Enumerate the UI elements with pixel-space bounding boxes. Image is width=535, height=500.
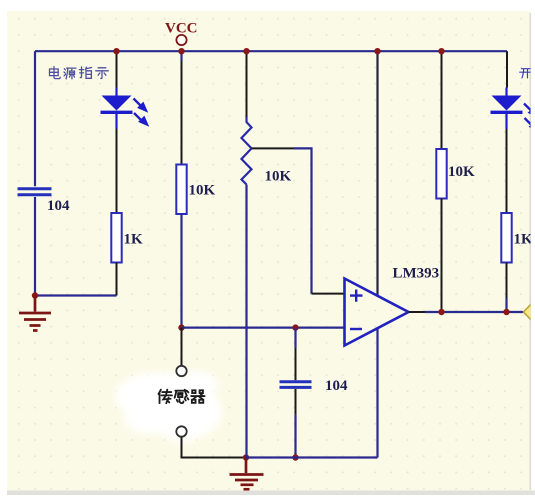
svg-text:1K: 1K bbox=[124, 232, 144, 248]
wire: middle column from rail to R2 bbox=[180, 51, 182, 61]
sensor label 传感器 bbox=[159, 390, 205, 403]
junction at rail (V+ pin) bbox=[374, 48, 380, 54]
wire: D1 cathode to R1 bbox=[116, 129, 118, 213]
LED D1 anode stub bbox=[115, 88, 117, 96]
capacitor C1 plates bbox=[18, 189, 52, 195]
wire: LED D1 branch from rail bbox=[116, 51, 118, 87]
sensor terminal 1 bbox=[176, 366, 186, 376]
VCC terminal circle bbox=[176, 35, 186, 45]
wire: op-amp V- pin to ground rail bbox=[376, 329, 378, 458]
resistor R1 body bbox=[111, 213, 121, 263]
wire: potentiometer branch from rail bbox=[246, 51, 248, 117]
wire: pot bottom to ground rail bbox=[245, 185, 247, 458]
resistor R2 body bbox=[176, 165, 186, 215]
resistor R3 body bbox=[436, 149, 446, 199]
svg-text:10K: 10K bbox=[265, 169, 292, 185]
svg-text:10K: 10K bbox=[189, 183, 216, 199]
wire: pot wiper to op-amp + input bbox=[252, 147, 296, 149]
wire: sensor terminal 2 to ground rail bbox=[182, 437, 247, 458]
LED D2 light arrows (clipped) bbox=[524, 104, 535, 130]
svg-text:104: 104 bbox=[47, 198, 70, 214]
ground GND2 bbox=[230, 458, 264, 490]
wire: D2 cathode to R4 bbox=[506, 129, 508, 213]
label 开 (cut) bbox=[520, 69, 532, 78]
wire: R4 bottom to output net bbox=[506, 263, 508, 299]
wire: right LED branch corner bbox=[506, 51, 508, 87]
junction at rail (R3) bbox=[438, 48, 444, 54]
LED D2 bbox=[491, 96, 523, 130]
junction C2 at ground rail bbox=[292, 454, 298, 460]
port (output, cut at edge) bbox=[524, 301, 535, 324]
junction at rail (D1 branch) bbox=[113, 48, 119, 54]
label 电源指示 bbox=[50, 67, 109, 79]
LED D2 anode stub bbox=[505, 88, 507, 96]
capacitor C2 plates bbox=[280, 382, 312, 388]
bottom shadow line bbox=[7, 491, 535, 496]
wire: op-amp output net bbox=[409, 311, 427, 313]
wire: node B to sensor terminal 1 bbox=[181, 328, 183, 366]
sensor terminal 2 bbox=[176, 426, 186, 436]
op-amp U1 LM393 bbox=[345, 279, 409, 346]
junction R4 at output net bbox=[503, 309, 509, 315]
node B junction bbox=[178, 324, 184, 330]
wire: R2 bottom to node B bbox=[180, 214, 182, 328]
wire: top VCC rail bbox=[35, 50, 507, 52]
node A junction (left ground node) bbox=[32, 292, 38, 298]
wire: bottom ground rail bbox=[246, 456, 378, 458]
svg-text:104: 104 bbox=[325, 378, 348, 394]
wire: inverting input net bbox=[182, 327, 345, 329]
resistor R4 body bbox=[501, 213, 511, 263]
wire: op-amp V+ pin from rail bbox=[376, 51, 378, 295]
sensor white cloud bbox=[115, 371, 222, 442]
LED D1 bbox=[101, 96, 133, 130]
junction at rail (R2 branch) bbox=[178, 48, 184, 54]
svg-text:1K: 1K bbox=[514, 232, 534, 248]
wire: C2 top lead bbox=[294, 328, 296, 348]
junction R3 at output net bbox=[438, 309, 444, 315]
wire: left column upper (to capacitor C1) bbox=[34, 51, 36, 186]
wire: right 10K branch from rail bbox=[441, 51, 443, 149]
ground GND1 bbox=[19, 296, 51, 331]
wire: R1 bottom lead bbox=[116, 263, 118, 296]
svg-text:10K: 10K bbox=[448, 164, 475, 180]
wire: C2 bottom lead bbox=[295, 389, 297, 415]
junction capacitor C2 tap bbox=[292, 324, 298, 330]
junction at rail (pot branch) bbox=[243, 48, 249, 54]
LED D1 light arrows bbox=[134, 99, 148, 125]
wire: left column lower (C1 to ground node) bbox=[34, 197, 36, 296]
potentiometer RP1 zigzag bbox=[242, 117, 252, 185]
right edge line bbox=[530, 13, 532, 490]
svg-text:LM393: LM393 bbox=[393, 266, 440, 282]
junction ground node bbox=[243, 454, 249, 460]
svg-text:VCC: VCC bbox=[165, 21, 198, 37]
wire: bottom-left horizontal (node A to R1) bbox=[35, 294, 117, 296]
wire: R3 bottom to output net bbox=[441, 199, 443, 313]
